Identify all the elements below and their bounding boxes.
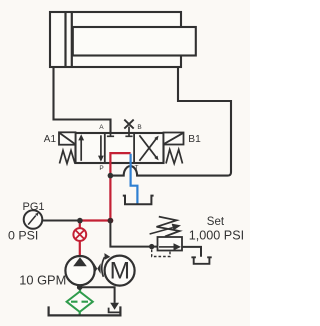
- svg-text:A: A: [99, 124, 104, 131]
- shaft coupling: [94, 263, 101, 274]
- valve left envelope arrow down: [98, 135, 104, 161]
- blocked port X above B: [124, 120, 133, 129]
- svg-text:T: T: [135, 164, 139, 171]
- drain arrow into reservoir: [110, 303, 119, 310]
- relief pilot line (dashed): [152, 250, 170, 257]
- svg-text:0 PSI: 0 PSI: [8, 229, 38, 243]
- node relief pilot junction: [149, 244, 154, 249]
- electric motor M: [105, 256, 135, 286]
- valve center B port blocked stub: [125, 127, 132, 137]
- svg-text:1,000 PSI: 1,000 PSI: [189, 229, 244, 243]
- valve center A port blocked stub: [107, 133, 114, 136]
- svg-text:PG1: PG1: [23, 201, 45, 213]
- valve envelope divider left: [104, 133, 106, 163]
- filter F1: [67, 292, 93, 316]
- solenoid actuator left: [59, 132, 76, 144]
- wire junction to P line (red): [80, 219, 111, 221]
- wire rod-side port to P junction: [110, 68, 231, 176]
- reservoir: [49, 306, 121, 315]
- cylinder C1 body: [50, 12, 181, 67]
- node gauge junction: [77, 218, 83, 224]
- wire cap-side port to valve A: [54, 68, 111, 137]
- svg-text:P: P: [99, 165, 103, 172]
- wire P junction to relief valve: [110, 221, 157, 247]
- cylinder piston: [64, 13, 66, 66]
- spring right: [166, 150, 183, 164]
- node suction junction: [77, 284, 83, 290]
- case drain wire: [80, 287, 115, 303]
- valve right envelope crossed arrow down-right: [139, 135, 158, 160]
- pump P1: [65, 256, 94, 285]
- tank line T (blue): [131, 154, 138, 204]
- pressure gauge PG1: [24, 210, 43, 229]
- relief valve spring: [157, 217, 180, 237]
- suction line (green): [79, 285, 81, 291]
- svg-text:M: M: [110, 258, 130, 285]
- orifice / shutoff valve (red): [73, 228, 86, 241]
- valve V1 body: [76, 133, 164, 163]
- tank symbol under valve: [123, 196, 154, 205]
- pressure line P (red): [110, 153, 130, 221]
- wire relief to drain tank: [182, 247, 201, 257]
- cylinder rod: [73, 27, 196, 56]
- red stub below orifice to pump: [79, 241, 81, 257]
- svg-text:Set: Set: [207, 216, 225, 228]
- drain tank symbol: [191, 257, 211, 264]
- valve left envelope arrow up: [78, 134, 84, 161]
- drain cup: [109, 308, 121, 313]
- relief adjustment arrow: [150, 228, 173, 234]
- svg-text:A1: A1: [44, 134, 57, 145]
- svg-text:10 GPM: 10 GPM: [19, 273, 66, 288]
- solenoid actuator right: [164, 133, 184, 145]
- relief valve R1: [158, 237, 183, 251]
- junction node P-to-rod-line: [108, 173, 114, 179]
- valve envelope divider right: [133, 133, 135, 163]
- spring left: [60, 151, 76, 164]
- rotation arrow: [102, 257, 105, 277]
- node P junction: [108, 218, 114, 224]
- red stub above orifice: [79, 221, 81, 229]
- svg-text:B1: B1: [188, 134, 201, 145]
- wire gauge to junction: [42, 220, 80, 222]
- valve right envelope crossed arrow up-right: [139, 136, 158, 161]
- svg-text:B: B: [137, 124, 141, 131]
